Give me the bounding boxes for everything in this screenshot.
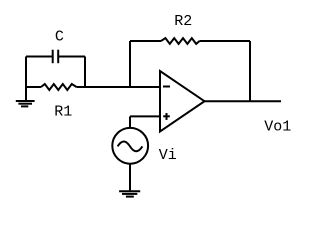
op-amp U1 <box>160 71 205 132</box>
wire: feedback left vertical up to R2 branch <box>129 41 131 87</box>
wire: right rail of RC block <box>84 57 86 89</box>
wire: left rail from capacitor branch down to left ground <box>25 57 27 101</box>
pin marker: non-inverting input (+) <box>163 113 170 120</box>
capacitor C (parallel with R1) <box>53 50 59 64</box>
ground (below source Vi) <box>119 191 140 196</box>
wire: capacitor branch right lead <box>58 56 85 58</box>
wire: R2 branch right lead <box>200 40 251 42</box>
wire: from R1 to inverting input of op-amp <box>77 86 161 88</box>
wire: feedback right vertical down to output node <box>249 41 251 101</box>
source Vi (AC sine source) <box>112 128 148 164</box>
ground (left, at input network) <box>16 101 35 106</box>
svg-text:R1: R1 <box>54 104 72 121</box>
wire: capacitor branch left lead <box>26 56 53 58</box>
svg-text:Vo1: Vo1 <box>264 118 291 135</box>
resistor R1 <box>41 84 77 90</box>
resistor R2 <box>161 38 200 44</box>
wire: R2 branch left lead <box>130 40 161 42</box>
wire: bottom branch left lead into R1 <box>26 86 41 88</box>
wire: op-amp output to Vo1 <box>205 100 282 102</box>
wire: down from + input corner to source top <box>129 116 131 128</box>
wire: non-inverting input lead <box>130 115 160 117</box>
wire: source bottom to ground <box>129 164 131 191</box>
pin marker: inverting input (-) <box>163 86 170 88</box>
svg-text:R2: R2 <box>174 13 192 30</box>
svg-text:Vi: Vi <box>159 147 177 164</box>
svg-text:C: C <box>55 28 64 45</box>
